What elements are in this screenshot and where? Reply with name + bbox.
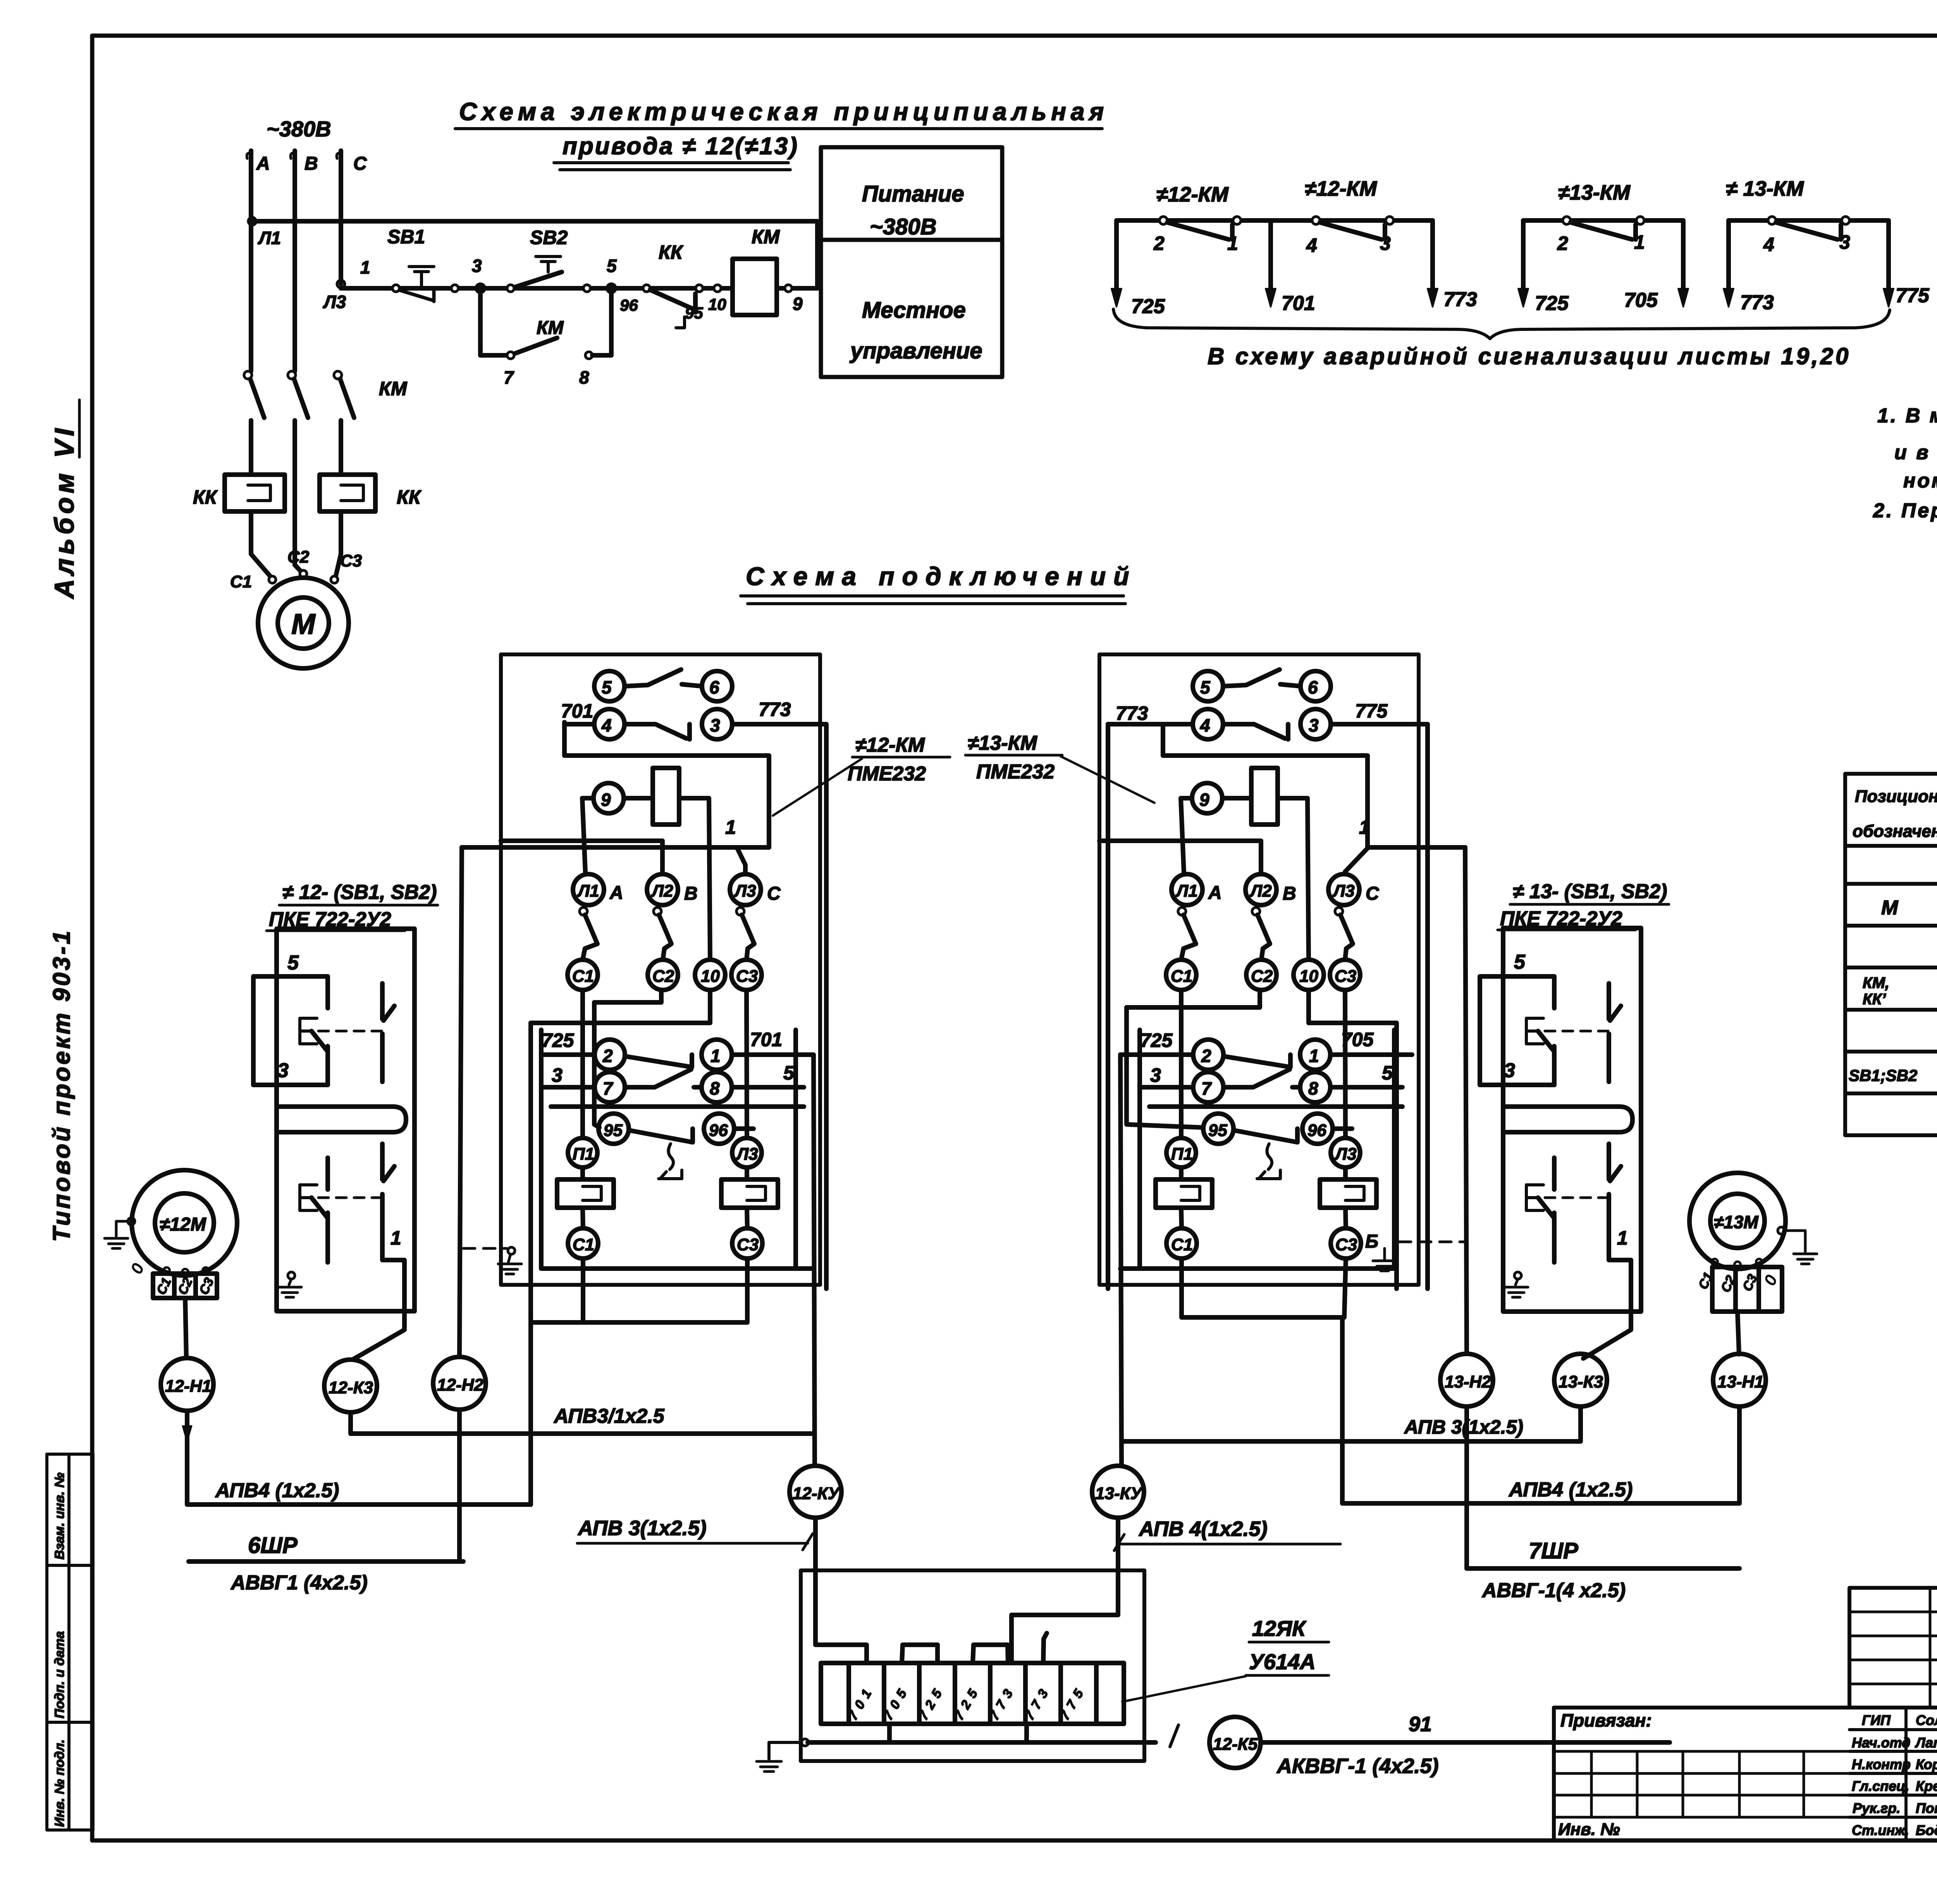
svg-text:В: В bbox=[304, 153, 318, 174]
SB contact NO lower bbox=[1609, 1144, 1621, 1246]
svg-text:Местное: Местное bbox=[862, 298, 966, 323]
jumper channel bbox=[280, 1107, 406, 1132]
svg-text:6ШР: 6ШР bbox=[248, 1533, 298, 1558]
svg-text:Л2: Л2 bbox=[1249, 881, 1272, 900]
svg-text:Б: Б bbox=[1365, 1231, 1378, 1252]
svg-text:725: 725 bbox=[1131, 295, 1165, 318]
motor terminals bbox=[269, 576, 276, 583]
svg-text:АПВ 4(1х2.5): АПВ 4(1х2.5) bbox=[1138, 1517, 1268, 1541]
svg-text:С: С bbox=[353, 153, 367, 174]
svg-text:~380В: ~380В bbox=[267, 117, 331, 141]
svg-text:А: А bbox=[609, 883, 623, 903]
svg-text:1: 1 bbox=[1617, 1227, 1628, 1249]
legend box Питание / Местное управление bbox=[821, 147, 1002, 377]
svg-text:773: 773 bbox=[1443, 288, 1477, 311]
circle 12-N2 bbox=[459, 847, 462, 1357]
svg-text:8: 8 bbox=[710, 1078, 720, 1098]
svg-text:775: 775 bbox=[1355, 700, 1388, 722]
svg-text:С1: С1 bbox=[1171, 967, 1192, 986]
svg-text:12ЯК: 12ЯК bbox=[1252, 1616, 1307, 1641]
svg-text:Л2: Л2 bbox=[651, 881, 673, 900]
svg-text:С3: С3 bbox=[1335, 1235, 1357, 1254]
svg-text:Латынцев: Латынцев bbox=[1915, 1735, 1937, 1751]
svg-text:Н.контр: Н.контр bbox=[1852, 1756, 1911, 1772]
svg-text:Л3: Л3 bbox=[1334, 1145, 1357, 1164]
svg-text:4: 4 bbox=[1200, 715, 1210, 735]
svg-text:Л1: Л1 bbox=[1175, 881, 1198, 900]
svg-text:705: 705 bbox=[1341, 1029, 1374, 1050]
svg-text:У614А: У614А bbox=[1249, 1649, 1316, 1674]
svg-text:С2: С2 bbox=[287, 547, 310, 566]
svg-text:91: 91 bbox=[1409, 1713, 1432, 1736]
svg-text:9: 9 bbox=[793, 294, 803, 314]
svg-text:3: 3 bbox=[472, 256, 482, 276]
wire into panel bbox=[1099, 841, 1261, 874]
svg-text:П1: П1 bbox=[1171, 1145, 1193, 1164]
svg-text:Питание: Питание bbox=[862, 181, 964, 207]
bottom-left margin stamp boxes bbox=[47, 1454, 93, 1830]
terminals C1 C3 bottom bbox=[568, 1228, 598, 1258]
svg-text:Л3: Л3 bbox=[736, 1145, 758, 1164]
svg-text:7: 7 bbox=[603, 1078, 614, 1098]
svg-text:≠12-КМ: ≠12-КМ bbox=[1156, 183, 1229, 206]
svg-text:3: 3 bbox=[710, 715, 720, 735]
circle 13-N2 bbox=[1465, 847, 1467, 1354]
svg-text:С2: С2 bbox=[1251, 967, 1273, 986]
svg-text:С2: С2 bbox=[652, 967, 674, 986]
svg-text:3: 3 bbox=[277, 1059, 289, 1082]
motor 13M bbox=[1689, 1173, 1786, 1269]
node L1 bbox=[248, 217, 256, 225]
names grid bbox=[1849, 1708, 1937, 1840]
svg-text:3: 3 bbox=[1150, 1064, 1161, 1086]
box ground bbox=[802, 1739, 809, 1746]
wire 1 bbox=[462, 847, 769, 874]
terminals P1 L3 bbox=[1166, 1138, 1196, 1167]
svg-text:КК: КК bbox=[193, 486, 218, 508]
svg-text:725: 725 bbox=[1140, 1029, 1173, 1051]
svg-text:≠13М: ≠13М bbox=[1714, 1212, 1759, 1232]
wire 5 bus bbox=[551, 1104, 804, 1109]
phase wire A bbox=[249, 151, 253, 371]
small revision grid bbox=[1849, 1588, 1937, 1708]
svg-text:10: 10 bbox=[1299, 967, 1318, 986]
SB contact NC lower bbox=[1552, 1158, 1557, 1190]
heater KK left bbox=[580, 1167, 585, 1179]
svg-text:ПМЕ232: ПМЕ232 bbox=[848, 763, 926, 785]
svg-text:10: 10 bbox=[708, 295, 726, 313]
strip top stubs bbox=[815, 1570, 867, 1663]
motor terminal box bbox=[163, 1267, 170, 1274]
inner enclosure bbox=[1120, 1030, 1394, 1269]
svg-text:≠12-КМ: ≠12-КМ bbox=[1305, 177, 1377, 200]
heater KK right bbox=[1343, 1167, 1348, 1179]
svg-text:Л3: Л3 bbox=[1332, 881, 1355, 900]
svg-text:Л1: Л1 bbox=[258, 228, 281, 248]
circle 12-K5 bbox=[1209, 1717, 1261, 1768]
svg-text:АПВ4 (1х2.5): АПВ4 (1х2.5) bbox=[1508, 1479, 1633, 1501]
svg-text:Позицион.: Позицион. bbox=[1855, 787, 1937, 806]
bus to motor cable bbox=[531, 1258, 747, 1322]
wire to 13-K3 bbox=[1583, 1312, 1631, 1358]
starter panel PME12 box bbox=[501, 654, 820, 1285]
svg-text:В схему аварийной сигнализации: В схему аварийной сигнализации листы 19,… bbox=[1208, 343, 1851, 369]
tie mark bbox=[1170, 1725, 1178, 1747]
svg-text:≠ 13- (SB1, SB2): ≠ 13- (SB1, SB2) bbox=[1513, 880, 1667, 903]
svg-text:2. Перечень элементов приве: 2. Перечень элементов приведен для одног… bbox=[1873, 499, 1937, 522]
svg-text:номер электропривода.: номер электропривода. bbox=[1903, 470, 1937, 492]
node L3 bbox=[337, 280, 345, 288]
column C3 bbox=[1345, 990, 1345, 1138]
svg-text:1. В маркировке аппаратов, пр: 1. В маркировке аппаратов, проводов, каб… bbox=[1877, 405, 1937, 427]
coil KM13 bbox=[1192, 783, 1222, 813]
SB contact NC lower bbox=[325, 1158, 330, 1190]
panel ground with dashes bbox=[463, 1247, 507, 1250]
motor ground bbox=[1778, 1227, 1785, 1234]
svg-text:5: 5 bbox=[1514, 951, 1526, 973]
svg-text:7ШР: 7ШР bbox=[1529, 1538, 1578, 1563]
terminals C1 C3 bottom bbox=[1166, 1228, 1197, 1258]
ground PKE13 bbox=[1514, 1272, 1521, 1279]
phase wire C bbox=[339, 151, 343, 284]
svg-text:Схема подключений: Схема подключений bbox=[746, 562, 1137, 590]
svg-text:≠ 13-КМ: ≠ 13-КМ bbox=[1726, 177, 1804, 200]
main contacts bbox=[1178, 907, 1186, 915]
phase wire B bbox=[292, 151, 297, 371]
svg-text:Инв. №: Инв. № bbox=[1558, 1820, 1620, 1839]
svg-text:Подп. и дата: Подп. и дата bbox=[52, 1631, 67, 1718]
svg-text:М: М bbox=[1881, 897, 1899, 919]
circle 12-KU bbox=[790, 1466, 841, 1518]
cable 6ShR bbox=[189, 1559, 463, 1564]
circle 13-K3 bbox=[1554, 1354, 1607, 1406]
thermal release symbol bbox=[659, 1144, 682, 1179]
svg-text:701: 701 bbox=[750, 1029, 782, 1050]
svg-text:5: 5 bbox=[1200, 677, 1211, 697]
motor M bbox=[258, 578, 349, 668]
svg-text:1: 1 bbox=[390, 1227, 401, 1249]
svg-text:А: А bbox=[1208, 883, 1222, 903]
svg-text:В: В bbox=[1283, 883, 1296, 904]
svg-text:773: 773 bbox=[1116, 702, 1148, 724]
ground PKE12 bbox=[288, 1272, 295, 1279]
svg-text:М: М bbox=[291, 608, 316, 640]
wire 10 loop bbox=[531, 990, 710, 1505]
junction box 12YaK bbox=[801, 1570, 1144, 1761]
svg-text:Нач.отд: Нач.отд bbox=[1852, 1735, 1910, 1751]
cable 7ShR bbox=[1467, 1566, 1739, 1571]
wire to 12-N1 bbox=[185, 1298, 186, 1358]
svg-text:КМ: КМ bbox=[752, 226, 780, 248]
SB contact NO upper bbox=[382, 983, 394, 1082]
svg-text:ПМЕ232: ПМЕ232 bbox=[976, 761, 1055, 783]
thermal heater KK phase C bbox=[320, 475, 375, 511]
svg-text:13-Н1: 13-Н1 bbox=[1717, 1372, 1764, 1391]
motor 12M bbox=[132, 1170, 237, 1276]
svg-text:Бодрынина: Бодрынина bbox=[1916, 1822, 1937, 1838]
svg-text:КК: КК bbox=[397, 486, 422, 508]
terminal strip bbox=[821, 1663, 1124, 1724]
svg-text:2: 2 bbox=[1201, 1046, 1211, 1066]
column C1 bbox=[580, 990, 585, 1138]
svg-text:3: 3 bbox=[1380, 232, 1391, 254]
svg-text:1: 1 bbox=[725, 816, 736, 838]
svg-text:1: 1 bbox=[1227, 232, 1238, 254]
svg-text:≠13-КМ: ≠13-КМ bbox=[1558, 181, 1631, 204]
contact 5-6 bbox=[1193, 671, 1223, 701]
brace bbox=[1113, 309, 1890, 339]
svg-text:Гл.спец.: Гл.спец. bbox=[1852, 1778, 1909, 1794]
svg-text:705: 705 bbox=[1624, 289, 1658, 312]
circle 12-K3 bbox=[324, 1360, 377, 1412]
svg-text:С1: С1 bbox=[230, 572, 252, 591]
svg-text:и в кабельном журнале впереди: и в кабельном журнале впереди проставляе… bbox=[1894, 441, 1937, 464]
wire to 12-K3 bbox=[353, 1311, 404, 1359]
heater KK left bbox=[1179, 1167, 1184, 1179]
wire 5 bus bbox=[1149, 1104, 1402, 1109]
svg-text:КМ: КМ bbox=[379, 378, 408, 399]
svg-text:Ст.инж.: Ст.инж. bbox=[1852, 1822, 1909, 1838]
svg-text:≠ 12- (SB1, SB2): ≠ 12- (SB1, SB2) bbox=[282, 881, 437, 904]
column C1 bbox=[1179, 990, 1184, 1138]
terminals P1 L3 bbox=[568, 1138, 597, 1167]
column C3 bbox=[747, 990, 747, 1138]
svg-text:Инв. № подл.: Инв. № подл. bbox=[52, 1739, 67, 1827]
svg-text:2: 2 bbox=[1153, 232, 1165, 254]
heater KK right bbox=[745, 1167, 749, 1179]
svg-text:АПВ 3(1х2.5): АПВ 3(1х2.5) bbox=[1404, 1416, 1523, 1438]
svg-text:1: 1 bbox=[1634, 231, 1645, 253]
bus to motor cable bbox=[1182, 1258, 1346, 1503]
terminals L1 L2 L3 bbox=[1171, 874, 1202, 905]
svg-text:С: С bbox=[767, 883, 781, 904]
svg-text:КК’: КК’ bbox=[1863, 991, 1886, 1008]
svg-text:АПВ4 (1х2.5): АПВ4 (1х2.5) bbox=[215, 1479, 339, 1502]
svg-text:773: 773 bbox=[759, 699, 791, 720]
svg-text:АПВ3/1х2.5: АПВ3/1х2.5 bbox=[553, 1405, 665, 1427]
terminals C1 C2 10 C3 bbox=[568, 960, 598, 990]
svg-text:12-КУ: 12-КУ bbox=[793, 1484, 841, 1503]
contact 5-6 bbox=[594, 671, 624, 701]
svg-text:5: 5 bbox=[783, 1062, 795, 1084]
svg-text:≠13-КМ: ≠13-КМ bbox=[968, 732, 1038, 754]
svg-text:96: 96 bbox=[620, 296, 638, 314]
svg-text:АКВВГ-1 (4х2.5): АКВВГ-1 (4х2.5) bbox=[1276, 1754, 1438, 1778]
svg-text:10: 10 bbox=[701, 967, 720, 986]
wire C2 loop bbox=[1127, 990, 1260, 1128]
svg-text:КК: КК bbox=[659, 241, 684, 263]
svg-text:SB2: SB2 bbox=[530, 227, 568, 248]
node 3 bbox=[477, 285, 484, 292]
bus wire L1 bbox=[251, 219, 817, 224]
svg-text:95: 95 bbox=[604, 1121, 623, 1140]
node 5 bbox=[608, 285, 615, 292]
svg-text:5: 5 bbox=[1382, 1062, 1393, 1084]
svg-text:С1: С1 bbox=[573, 1235, 594, 1254]
jumper channel bbox=[1506, 1107, 1633, 1132]
svg-text:3: 3 bbox=[1504, 1059, 1515, 1082]
circle 12-N1 bbox=[161, 1358, 213, 1411]
svg-text:SB1: SB1 bbox=[387, 226, 425, 248]
svg-text:Л3: Л3 bbox=[323, 292, 346, 312]
title block frame bbox=[1554, 1588, 1937, 1840]
svg-text:АПВ 3(1х2.5): АПВ 3(1х2.5) bbox=[577, 1517, 707, 1540]
svg-text:В: В bbox=[684, 883, 698, 904]
svg-text:4: 4 bbox=[1306, 234, 1317, 256]
svg-text:3: 3 bbox=[552, 1064, 563, 1086]
SB contact NC upper bbox=[325, 976, 330, 1008]
cable 91 AKVVG bbox=[1261, 1740, 1670, 1745]
SB contact NO lower bbox=[382, 1144, 394, 1246]
svg-text:Крейнер: Крейнер bbox=[1916, 1778, 1937, 1794]
svg-text:5: 5 bbox=[287, 952, 299, 974]
svg-text:КМ: КМ bbox=[537, 318, 564, 338]
svg-text:12-Н2: 12-Н2 bbox=[437, 1375, 483, 1394]
svg-text:1: 1 bbox=[1359, 816, 1370, 838]
svg-text:Попкова: Попкова bbox=[1916, 1800, 1937, 1816]
svg-text:2: 2 bbox=[602, 1046, 613, 1066]
wire APV3 bbox=[351, 1412, 814, 1434]
row 95-96 bbox=[1203, 1114, 1233, 1144]
svg-text:С3: С3 bbox=[736, 967, 758, 986]
svg-text:12-К5: 12-К5 bbox=[1213, 1735, 1258, 1754]
svg-text:Типовой проект 903-1: Типовой проект 903-1 bbox=[48, 929, 75, 1242]
svg-text:КМ,: КМ, bbox=[1863, 974, 1889, 992]
svg-text:Корякина: Корякина bbox=[1916, 1756, 1937, 1772]
motor ground bbox=[128, 1218, 135, 1225]
svg-text:АВВГ-1(4 х2.5): АВВГ-1(4 х2.5) bbox=[1481, 1579, 1626, 1602]
svg-text:725: 725 bbox=[1535, 292, 1569, 315]
svg-text:Соловьев: Соловьев bbox=[1916, 1712, 1937, 1728]
circle 13-KU bbox=[1092, 1466, 1144, 1518]
element list table bbox=[1845, 774, 1937, 1135]
svg-text:6: 6 bbox=[709, 677, 719, 697]
wire C2 loop bbox=[594, 990, 661, 1128]
svg-text:Л3: Л3 bbox=[734, 881, 756, 900]
svg-text:95: 95 bbox=[685, 304, 703, 322]
coil KM12 bbox=[593, 783, 624, 813]
svg-text:8: 8 bbox=[579, 367, 589, 387]
svg-text:3: 3 bbox=[1309, 715, 1319, 735]
svg-text:13-К3: 13-К3 bbox=[1559, 1372, 1603, 1391]
control wire bbox=[341, 286, 733, 291]
svg-text:6: 6 bbox=[1308, 677, 1318, 697]
starter panel PME13 box bbox=[1099, 654, 1419, 1285]
svg-text:13-КУ: 13-КУ bbox=[1095, 1484, 1143, 1503]
svg-text:≠12-КМ: ≠12-КМ bbox=[855, 734, 925, 756]
svg-text:Привязан:: Привязан: bbox=[1560, 1710, 1652, 1730]
svg-text:13-Н2: 13-Н2 bbox=[1445, 1372, 1491, 1391]
svg-text:5: 5 bbox=[602, 677, 612, 697]
svg-text:7: 7 bbox=[1201, 1078, 1212, 1098]
motor terminal box bbox=[1712, 1259, 1718, 1265]
svg-text:95: 95 bbox=[1208, 1121, 1227, 1140]
wire APV4 bbox=[187, 1411, 531, 1505]
KM aux contact branch bbox=[480, 288, 507, 355]
svg-text:7: 7 bbox=[504, 367, 514, 387]
svg-text:701: 701 bbox=[1282, 292, 1315, 315]
svg-text:С3: С3 bbox=[1335, 967, 1356, 986]
circle 13-N1 bbox=[1713, 1354, 1766, 1406]
svg-text:1: 1 bbox=[710, 1046, 721, 1066]
svg-text:С3: С3 bbox=[737, 1235, 759, 1254]
svg-text:9: 9 bbox=[1199, 790, 1209, 810]
button station PKE13 box bbox=[1503, 928, 1641, 1312]
svg-text:12-Н1: 12-Н1 bbox=[165, 1377, 212, 1396]
svg-text:С: С bbox=[1366, 883, 1380, 904]
svg-text:701: 701 bbox=[561, 700, 593, 722]
svg-text:С1: С1 bbox=[572, 967, 594, 986]
svg-text:1: 1 bbox=[360, 257, 370, 277]
strip bottom stubs bbox=[889, 1724, 1027, 1742]
svg-text:привода ≠ 12(≠13): привода ≠ 12(≠13) bbox=[563, 133, 799, 160]
wire to 13-N1 bbox=[1737, 1312, 1739, 1354]
svg-text:12-К3: 12-К3 bbox=[329, 1378, 373, 1397]
svg-text:3: 3 bbox=[1839, 231, 1850, 253]
svg-text:96: 96 bbox=[709, 1121, 728, 1140]
svg-text:4: 4 bbox=[601, 715, 612, 735]
terminals C1 C2 10 C3 bbox=[1166, 960, 1196, 990]
wire APV4 right bbox=[1342, 1406, 1739, 1503]
wire 10 loop bbox=[1309, 990, 1397, 1289]
wire 1 bbox=[1345, 847, 1465, 872]
svg-text:Л1: Л1 bbox=[577, 881, 599, 900]
row 95-96 bbox=[599, 1114, 629, 1144]
thermal heater KK phase A bbox=[225, 475, 285, 511]
svg-text:ГИП: ГИП bbox=[1862, 1712, 1891, 1728]
inner enclosure bbox=[541, 1030, 814, 1269]
svg-text:5: 5 bbox=[607, 256, 617, 276]
wire into panel bbox=[501, 841, 662, 874]
svg-text:Рук.гр.: Рук.гр. bbox=[1853, 1800, 1901, 1816]
svg-text:П1: П1 bbox=[573, 1145, 594, 1164]
svg-text:775: 775 bbox=[1896, 284, 1930, 307]
svg-text:1: 1 bbox=[1309, 1046, 1319, 1066]
thermal release symbol bbox=[1257, 1144, 1280, 1179]
svg-text:~380В: ~380В bbox=[870, 214, 937, 239]
SB contact NO upper bbox=[1609, 983, 1621, 1082]
main contacts bbox=[580, 907, 587, 915]
SB contact NC upper bbox=[1552, 976, 1557, 1008]
svg-text:Альбом VI: Альбом VI bbox=[49, 425, 79, 599]
svg-text:96: 96 bbox=[1307, 1121, 1326, 1140]
svg-text:SB1;SB2: SB1;SB2 bbox=[1849, 1066, 1917, 1085]
svg-text:Схема электрическая принципиал: Схема электрическая принципиальная bbox=[459, 98, 1108, 126]
svg-text:4: 4 bbox=[1763, 234, 1774, 255]
svg-text:АВВГ1 (4х2.5): АВВГ1 (4х2.5) bbox=[230, 1572, 368, 1594]
svg-text:Взам. инв. №: Взам. инв. № bbox=[52, 1472, 67, 1560]
wire APV3 right bbox=[1122, 1406, 1581, 1441]
svg-text:≠12М: ≠12М bbox=[160, 1214, 206, 1235]
svg-text:773: 773 bbox=[1740, 291, 1774, 314]
bottom bus bbox=[808, 1740, 1156, 1745]
button station PKE12 box bbox=[277, 929, 415, 1311]
svg-text:обозначен.: обозначен. bbox=[1853, 822, 1937, 841]
terminals L1 L2 L3 bbox=[573, 874, 604, 905]
svg-text:8: 8 bbox=[1308, 1078, 1318, 1098]
svg-text:А: А bbox=[256, 153, 270, 174]
svg-text:725: 725 bbox=[542, 1029, 575, 1051]
svg-text:С3: С3 bbox=[340, 551, 362, 570]
svg-text:управление: управление bbox=[849, 338, 982, 363]
svg-text:С1: С1 bbox=[1171, 1235, 1193, 1254]
svg-text:2: 2 bbox=[1557, 232, 1568, 254]
svg-text:9: 9 bbox=[601, 790, 611, 810]
